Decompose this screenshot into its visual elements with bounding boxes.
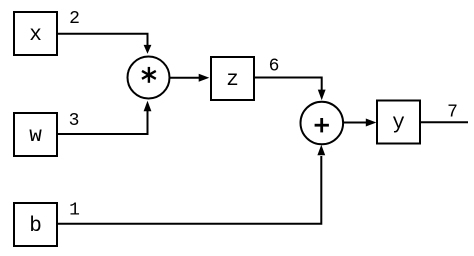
svg-text:y: y	[392, 112, 405, 135]
node y	[377, 101, 420, 144]
svg-text:7: 7	[447, 102, 458, 122]
svg-text:3: 3	[69, 111, 80, 131]
wire z to add	[255, 78, 326, 101]
wire x to multiply	[57, 34, 151, 54]
wire add to y	[343, 119, 376, 127]
svg-text:x: x	[29, 24, 42, 47]
svg-text:b: b	[29, 215, 42, 238]
node b	[14, 203, 57, 246]
wire b to add	[57, 145, 325, 224]
wire w to multiply	[57, 101, 151, 134]
svg-text:z: z	[226, 69, 239, 92]
add node	[301, 102, 344, 145]
node x	[14, 12, 57, 55]
svg-text:1: 1	[69, 201, 80, 221]
node z	[211, 57, 254, 100]
svg-text:6: 6	[269, 57, 280, 77]
wire y output	[421, 121, 468, 123]
node w	[14, 113, 57, 156]
svg-text:2: 2	[69, 9, 80, 29]
svg-text:w: w	[29, 125, 42, 148]
multiply node	[128, 57, 170, 99]
wire multiply to z	[170, 74, 209, 82]
